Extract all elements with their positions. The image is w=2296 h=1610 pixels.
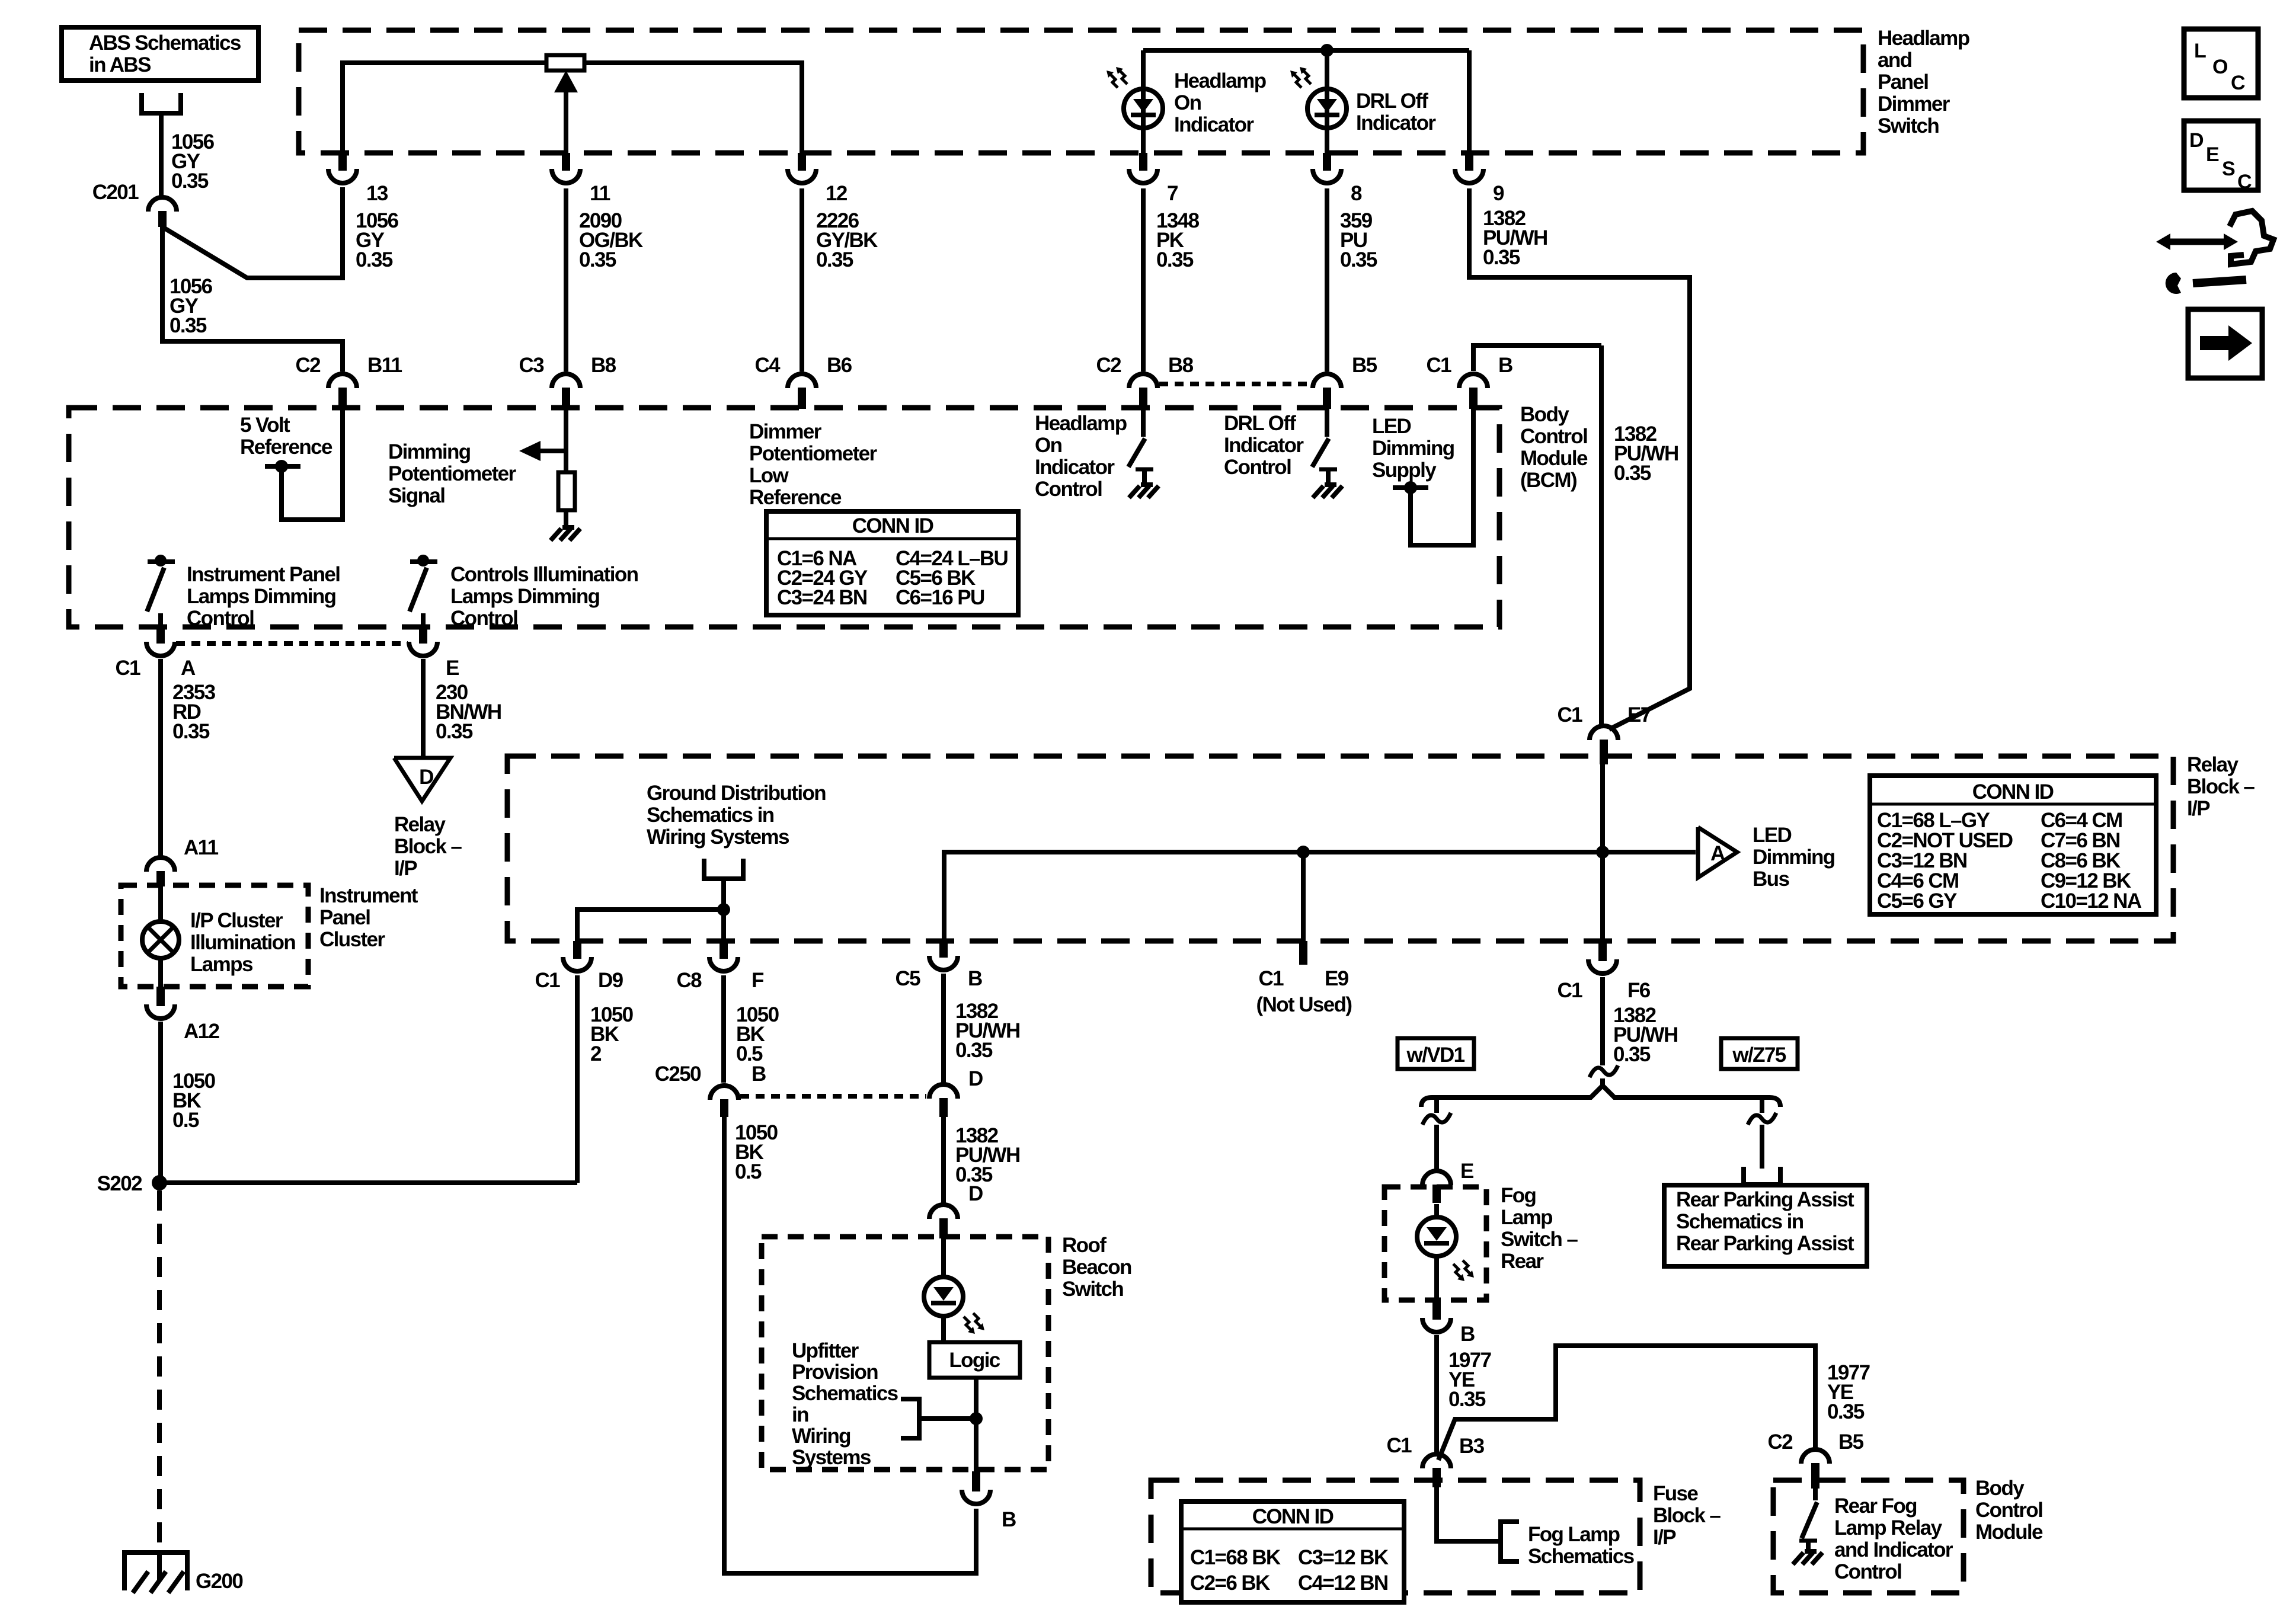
wire E9 tap (1301, 852, 1306, 941)
wire resistor to ground (564, 510, 568, 526)
svg-text:D: D (419, 766, 433, 789)
5 volt reference tap bar (265, 464, 300, 469)
svg-text:E: E (2206, 143, 2219, 166)
svg-text:D: D (968, 1182, 983, 1205)
svg-text:C201: C201 (92, 181, 139, 204)
svg-text:C1: C1 (535, 969, 560, 992)
wire pin 7 to C2-B8 (1141, 188, 1146, 372)
svg-text:C5: C5 (895, 967, 920, 990)
wire break symbol right option (1760, 1097, 1764, 1113)
lamp I/P cluster illumination (142, 921, 179, 958)
dashed box Instrument Panel Cluster (121, 885, 308, 987)
wire ground net to D9 (577, 910, 724, 941)
svg-text:Fog Lamp Schematics: Fog Lamp Schematics (1528, 1523, 1635, 1568)
svg-text:359 PU 0.35: 359 PU 0.35 (1340, 209, 1377, 271)
wire S202 to D9 drop (159, 1180, 577, 1185)
connector C2/B8 at BCM top (1129, 374, 1157, 388)
svg-text:C2: C2 (1767, 1430, 1793, 1454)
wire B to C1/B3 (1434, 1335, 1439, 1454)
box ABS Schematics reference (62, 27, 258, 81)
connector B at fog lamp switch bottom (1432, 1300, 1441, 1320)
wire B3 to fog lamp schematics (1437, 1487, 1499, 1541)
svg-text:C250: C250 (655, 1062, 701, 1086)
wire pin 8 to B5 (1325, 188, 1329, 372)
wire break symbol at F6 (1590, 1065, 1618, 1077)
connector pin 7 of dimmer switch (1139, 153, 1147, 171)
svg-text:B: B (968, 967, 982, 990)
options brace (1421, 1086, 1780, 1107)
logic box (929, 1342, 1020, 1378)
svg-text:C1: C1 (1557, 979, 1582, 1002)
svg-text:B: B (1460, 1323, 1475, 1346)
junction dot ground net (717, 903, 730, 916)
ground of headlamp-on control (1129, 485, 1159, 498)
svg-text:E9: E9 (1325, 967, 1349, 990)
dashed box Fuse Block - I/P (1151, 1480, 1640, 1593)
dashed box Relay Block - I/P (507, 756, 2173, 941)
svg-text:w/VD1: w/VD1 (1406, 1044, 1464, 1067)
wire C5-B to connector D (941, 974, 946, 1084)
svg-text:11: 11 (590, 182, 610, 205)
LED Headlamp On Indicator (1124, 89, 1163, 128)
svg-text:13: 13 (366, 182, 388, 205)
wire A11 to lamp (158, 886, 163, 922)
svg-text:D: D (2189, 129, 2204, 152)
wire ground distribution to splice (721, 879, 726, 910)
wire C1-B to LED dimming supply tap (1411, 409, 1473, 545)
svg-text:C1: C1 (1258, 967, 1284, 990)
svg-text:L: L (2194, 40, 2206, 62)
svg-text:C1: C1 (1386, 1434, 1412, 1457)
svg-text:CONN ID: CONN ID (1252, 1505, 1334, 1528)
wire D to roof LED (941, 1238, 946, 1278)
dashed wire S202 to G200 (157, 1190, 162, 1553)
svg-text:C2: C2 (1096, 354, 1121, 377)
svg-text:A12: A12 (184, 1020, 220, 1043)
wire break symbol left option (1434, 1097, 1439, 1113)
potentiometer wiper arrow (564, 89, 568, 153)
svg-text:A: A (1710, 842, 1725, 865)
wire dimmer internal left (343, 63, 546, 153)
connector E at BCM bottom (419, 627, 427, 644)
LED supply rail (1143, 48, 1469, 53)
svg-text:E7: E7 (1627, 703, 1651, 726)
dotted connector link C1/A to E (176, 641, 408, 646)
wire B11 to 5 volt reference tap (282, 409, 343, 520)
junction dot E9 tap (1297, 846, 1310, 859)
dashed box Body Control Module (bottom) (1773, 1480, 1964, 1593)
svg-text:C1: C1 (1426, 354, 1451, 377)
wire C250 ground to roof beacon B (724, 1117, 976, 1573)
wire LED to logic (941, 1315, 946, 1342)
junction dot upfitter tap (970, 1412, 983, 1425)
connector C2/B11 at BCM top (328, 374, 357, 388)
connector pin 9 of dimmer switch (1465, 153, 1473, 171)
dotted connector link C2/B8 to B5 (1159, 382, 1312, 386)
dotted connector link C250 to D (740, 1094, 926, 1099)
dashed box Body Control Module BCM (69, 408, 1499, 627)
box Rear Parking Assist Schematics (1664, 1185, 1867, 1266)
svg-text:B: B (1002, 1508, 1016, 1531)
svg-text:C: C (2231, 72, 2245, 94)
switch Controls Illumination Lamps Dimming Control (410, 559, 437, 564)
svg-text:B8: B8 (1168, 354, 1194, 377)
connector C201 (148, 197, 177, 212)
ground G200 (122, 1550, 190, 1555)
ground in BCM (potentiometer) (551, 527, 580, 540)
connector C1/E7 (1590, 726, 1618, 740)
option label w/Z75 (1721, 1038, 1798, 1069)
wire A12 to S202 (158, 1022, 163, 1183)
svg-text:C8: C8 (676, 969, 702, 992)
svg-text:C1: C1 (1557, 703, 1582, 726)
fog lamp schematics bracket (1501, 1522, 1519, 1561)
ground rear fog relay (1793, 1551, 1822, 1564)
wire dimmer internal right (584, 63, 802, 153)
wire pin 12 to C4-B6 (800, 188, 804, 372)
LED roof beacon (924, 1277, 963, 1316)
connector C8/F (720, 941, 728, 959)
svg-text:B3: B3 (1459, 1435, 1485, 1458)
svg-text:CONN ID: CONN ID (852, 514, 933, 537)
dashed box Fog Lamp Switch - Rear (1384, 1187, 1486, 1300)
junction dot E7/F6 (1596, 846, 1609, 859)
wire rail to headlamp-on LED (1141, 50, 1146, 155)
svg-text:A11: A11 (184, 836, 219, 859)
svg-text:F: F (752, 969, 764, 992)
icon service vehicle (2170, 239, 2224, 245)
connector C1/B at BCM top (1459, 374, 1488, 388)
wire to roof beacon D (941, 1117, 946, 1204)
svg-text:E: E (1460, 1160, 1473, 1183)
svg-text:DRL Off Indicator: DRL Off Indicator (1356, 89, 1436, 135)
svg-text:C1: C1 (115, 657, 140, 680)
branch wire to C2/B5 (1438, 1346, 1815, 1460)
svg-text:B6: B6 (827, 354, 852, 377)
dimming potentiometer signal arrow (539, 449, 567, 453)
svg-text:F6: F6 (1627, 979, 1651, 1002)
wire ABS to C201 (159, 113, 164, 197)
wire B8 to dimming potentiometer divider (564, 409, 568, 472)
svg-text:O: O (2212, 56, 2228, 78)
svg-text:A: A (181, 657, 196, 680)
wire D9 to S202 (575, 975, 580, 1183)
connector C250/B (710, 1086, 738, 1100)
wire C201 to C2-B11 (162, 227, 343, 372)
potentiometer body (546, 55, 584, 71)
svg-text:12: 12 (826, 182, 848, 205)
LED fog lamp switch (1417, 1217, 1456, 1256)
junction dot on rail (1320, 44, 1334, 57)
switch Instrument Panel Lamps Dimming Control (148, 559, 175, 564)
svg-text:B8: B8 (591, 354, 616, 377)
svg-text:C4: C4 (754, 354, 781, 377)
CONN ID table (BCM) (766, 511, 1018, 615)
wire fog LED down (1434, 1255, 1439, 1300)
switch Headlamp On Indicator Control (1141, 409, 1146, 437)
svg-text:D: D (968, 1067, 983, 1090)
CONN ID table (relay block) (1870, 776, 2156, 914)
wire logic to B (974, 1378, 978, 1475)
connector C1/D9 (573, 941, 581, 959)
wire pin 9 to connector E7 (1469, 188, 1690, 729)
ground of DRL-off control (1313, 485, 1342, 498)
triangle reference D relay block (394, 758, 450, 801)
option label w/VD1 (1398, 1038, 1474, 1069)
wire pin 11 to C3-B8 (564, 188, 568, 372)
wire E to fog LED (1434, 1204, 1439, 1219)
svg-text:9: 9 (1493, 182, 1504, 205)
svg-text:S: S (2222, 158, 2235, 180)
svg-text:C1=6 NA C2=24 GY C3=24 BN: C1=6 NA C2=24 GY C3=24 BN (777, 547, 871, 609)
svg-text:w/Z75: w/Z75 (1732, 1044, 1786, 1067)
switch DRL Off Indicator Control (1325, 409, 1329, 437)
LED DRL Off Indicator (1307, 89, 1347, 128)
connector C1/B3 (1422, 1454, 1451, 1468)
svg-text:B: B (752, 1062, 766, 1086)
svg-text:(Not Used): (Not Used) (1256, 993, 1352, 1016)
wire E7 to F6 through bus (1600, 764, 1605, 941)
svg-text:D9: D9 (598, 969, 623, 992)
connector pin 11 of dimmer switch (562, 153, 570, 171)
svg-text:C3: C3 (519, 354, 544, 377)
connector A11 (146, 857, 175, 872)
svg-text:B: B (1498, 354, 1512, 377)
triangle A LED dimming bus (1698, 827, 1737, 878)
svg-text:CONN ID: CONN ID (1972, 780, 2054, 804)
icon box arrow (2188, 309, 2262, 378)
wire E to relay block triangle D (421, 659, 426, 758)
connector C4/B6 at BCM top (788, 374, 816, 388)
resistor in BCM (558, 472, 575, 510)
dashed box Roof Beacon Switch (762, 1237, 1048, 1470)
connector D at roof beacon switch (929, 1205, 958, 1219)
ABS off-page connector symbol (142, 93, 181, 113)
wire to fog lamp switch E (1434, 1125, 1439, 1170)
icon box DESC (2184, 121, 2258, 190)
svg-text:C: C (2237, 171, 2252, 193)
wire lamp to A12 (158, 958, 163, 987)
ground distribution reference symbol (704, 859, 743, 879)
wire F to C250 (721, 975, 726, 1083)
connector E at fog lamp switch (1422, 1171, 1451, 1185)
connector D (C250 side) (929, 1084, 958, 1099)
wire F6 down to options (1600, 977, 1605, 1065)
svg-text:B11: B11 (367, 354, 402, 377)
connector B5 at BCM top (1313, 374, 1341, 388)
connector pin 8 of dimmer switch (1323, 153, 1331, 171)
splice S202 (152, 1175, 167, 1190)
svg-text:8: 8 (1351, 182, 1362, 205)
svg-text:E: E (446, 657, 459, 680)
svg-text:B5: B5 (1352, 354, 1377, 377)
connector A12 (156, 987, 165, 1006)
wire ground net to F (721, 910, 726, 941)
wire C201 to pin 13 (162, 187, 343, 278)
wire rail to DRL-off LED (1325, 50, 1329, 155)
LED dimming bus line (944, 852, 1696, 941)
wire C1-B feed from E7 net (1473, 345, 1601, 371)
connector C1/E9 not used (1299, 941, 1307, 965)
connector C1/A at BCM bottom (156, 627, 165, 644)
icon box LOC (2184, 29, 2258, 98)
svg-text:7: 7 (1167, 182, 1178, 205)
wire rail to pin 9 (1467, 50, 1472, 155)
switch Rear Fog Lamp Relay and Indicator Control (1813, 1489, 1818, 1500)
wire C1-A to A11 (158, 659, 163, 857)
svg-text:G200: G200 (196, 1570, 243, 1593)
connector pin 12 of dimmer switch (798, 153, 806, 171)
LED dimming supply tap bar (1393, 485, 1428, 490)
upfitter tap bracket (919, 1416, 976, 1421)
connector C2/B5 (1801, 1449, 1830, 1464)
connector C5/B (939, 941, 948, 958)
dashed box Headlamp and Panel Dimmer Switch (299, 30, 1863, 153)
svg-text:C2: C2 (295, 354, 321, 377)
rear parking assist reference symbol (1744, 1167, 1780, 1185)
svg-text:B5: B5 (1838, 1430, 1864, 1454)
svg-text:S202: S202 (97, 1172, 142, 1195)
connector pin 13 of dimmer switch (338, 153, 347, 171)
connector B at roof beacon bottom (972, 1471, 980, 1491)
CONN ID table (fuse block) (1181, 1502, 1404, 1602)
wire to rear parking assist (1760, 1125, 1764, 1169)
svg-text:Logic: Logic (949, 1349, 1000, 1372)
connector C3/B8 at BCM top (552, 374, 580, 388)
wire E7 net vertical (1599, 345, 1604, 725)
connector C1/F6 (1598, 941, 1607, 961)
